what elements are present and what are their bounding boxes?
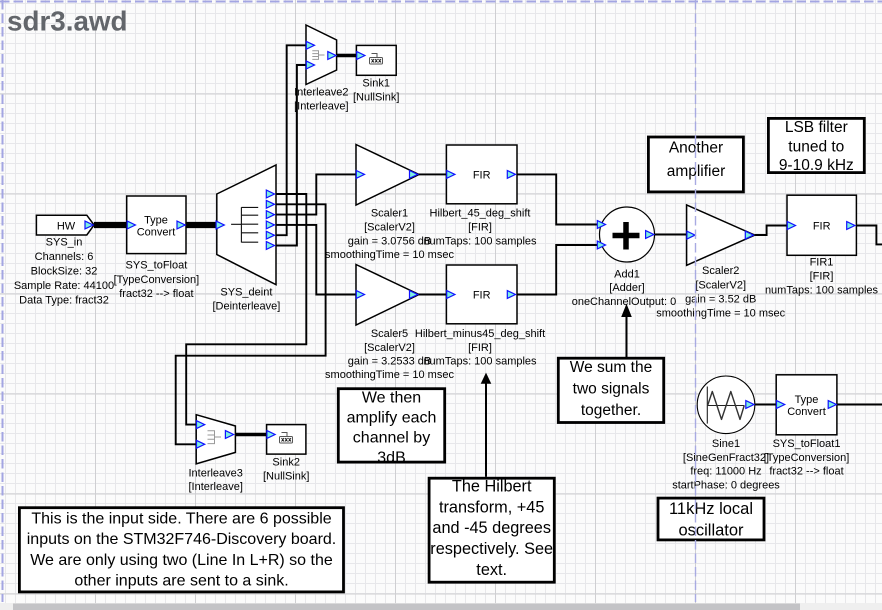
label SYS_deint (212, 286, 280, 312)
svg-text:LSB filter: LSB filter (785, 119, 848, 136)
wire Interleave3 to Sink2 (2ch thick) (235, 433, 266, 437)
wire deint out1 to Interleave3 in1 (186, 194, 306, 425)
svg-text:smoothingTime = 10 msec: smoothingTime = 10 msec (325, 369, 454, 381)
annotation box We sum (558, 358, 663, 422)
annotation box The Hilbert transform (429, 478, 554, 583)
block Scaler1 (amplifier triangle) (356, 145, 419, 206)
svg-text:Type: Type (795, 394, 819, 406)
svg-text:oneChannelOutput: 0: oneChannelOutput: 0 (572, 296, 677, 308)
wire Sine1 to SYS_toFloat1 (755, 404, 776, 406)
svg-text:The Hilbert: The Hilbert (452, 478, 532, 496)
block SYS_toFloat1 (776, 375, 837, 435)
page boundary dashed line vertical x=695.5 (695, 0, 697, 602)
svg-text:channel by: channel by (353, 429, 430, 446)
svg-text:amplify each: amplify each (347, 410, 437, 427)
wire SYS_toFloat to SYS_deint (6ch thick) (186, 222, 217, 228)
wire Scaler5 to Hilbert_minus45_deg_shift (419, 294, 446, 296)
svg-text:smoothingTime = 10 msec: smoothingTime = 10 msec (656, 307, 785, 319)
label Scaler5 (325, 328, 454, 381)
label Hilbert_45_deg_shift (423, 208, 537, 248)
svg-text:[FIR]: [FIR] (468, 222, 492, 234)
label Scaler1 (325, 208, 454, 261)
svg-text:We sum the: We sum the (570, 359, 652, 376)
label FIR1 (765, 256, 879, 296)
block FIR1 (787, 195, 856, 255)
svg-text:HW: HW (57, 221, 76, 233)
svg-text:transform, +45: transform, +45 (439, 498, 544, 516)
scrollbar track (0, 603, 882, 610)
svg-text:SYS_deint: SYS_deint (220, 286, 272, 298)
label Sine1 (672, 438, 780, 491)
svg-text:[TypeConversion]: [TypeConversion] (114, 274, 200, 286)
svg-text:Convert: Convert (137, 226, 176, 238)
wire Add1 to Scaler2 (655, 234, 687, 236)
block HW (SYS_in) (36, 215, 94, 235)
svg-text:sdr3.awd: sdr3.awd (7, 5, 128, 36)
wire deint out2 to Interleave3 in2 (176, 204, 326, 444)
svg-text:Scaler2: Scaler2 (702, 265, 739, 277)
svg-text:Scaler1: Scaler1 (371, 208, 408, 220)
wire HW to SYS_toFloat (6ch thick) (94, 222, 127, 228)
svg-text:together.: together. (581, 402, 641, 419)
block Sine1 (sine generator) (697, 376, 755, 434)
label Sink2 (263, 457, 309, 483)
svg-text:Hilbert_45_deg_shift: Hilbert_45_deg_shift (430, 208, 531, 220)
block SYS_toFloat (127, 196, 186, 254)
svg-text:startPhase: 0 degrees: startPhase: 0 degrees (672, 479, 780, 491)
svg-text:Sink2: Sink2 (272, 457, 300, 469)
label Interleave2 (294, 87, 348, 113)
annotation box This is the input side (19, 508, 343, 592)
label Hilbert_minus45_deg_shift (415, 328, 545, 368)
label Interleave3 (188, 467, 242, 493)
svg-text:Data Type: fract32: Data Type: fract32 (19, 295, 109, 307)
svg-text:Add1: Add1 (614, 269, 640, 281)
svg-text:Sample Rate: 44100: Sample Rate: 44100 (14, 280, 114, 292)
block Hilbert_45_deg_shift (FIR) (446, 145, 517, 204)
svg-text:gain = 3.0756 dB: gain = 3.0756 dB (348, 235, 432, 247)
svg-text:[Deinterleave]: [Deinterleave] (212, 301, 280, 313)
svg-text:Sink1: Sink1 (362, 78, 390, 90)
svg-text:Hilbert_minus45_deg_shift: Hilbert_minus45_deg_shift (415, 328, 545, 340)
label Add1 (572, 269, 677, 308)
svg-text:11kHz local: 11kHz local (669, 500, 753, 518)
label Scaler2 (656, 265, 785, 319)
svg-text:other inputs are sent to a sin: other inputs are sent to a sink. (74, 573, 288, 590)
svg-text:SYS_toFloat1: SYS_toFloat1 (773, 438, 841, 450)
block Interleave3 (196, 415, 235, 464)
svg-text:[ScalerV2]: [ScalerV2] (364, 222, 415, 234)
svg-text:This is the input side. There: This is the input side. There are 6 poss… (31, 511, 331, 528)
block Scaler2 (amplifier triangle) (687, 205, 755, 265)
annotation box 11kHz local oscillator (658, 498, 764, 540)
svg-text:respectively. See: respectively. See (430, 540, 553, 558)
block SYS_deint (Deinterleave) (216, 165, 276, 285)
svg-text:Channels: 6: Channels: 6 (35, 251, 94, 263)
annotation box LSB filter (768, 118, 864, 174)
svg-text:Convert: Convert (787, 406, 826, 418)
wire Scaler2 to FIR1 (755, 226, 787, 236)
svg-text:SYS_toFloat: SYS_toFloat (126, 260, 188, 272)
page boundary dashed line vertical left (2, 0, 4, 602)
annotation box We then amplify (338, 389, 444, 467)
block Sink1 (NullSink) (356, 45, 396, 75)
svg-text:FIR: FIR (813, 221, 831, 233)
svg-text:FIR1: FIR1 (810, 256, 834, 268)
svg-text:[NullSink]: [NullSink] (353, 91, 399, 103)
svg-text:numTaps: 100 samples: numTaps: 100 samples (423, 356, 537, 368)
wire deint out6 to Interleave2 in2 (276, 65, 306, 246)
svg-text:[FIR]: [FIR] (468, 342, 492, 354)
svg-text:tuned to: tuned to (788, 138, 844, 155)
svg-text:9-10.9 kHz: 9-10.9 kHz (779, 157, 854, 174)
wire Interleave2 to Sink1 (2ch thick) (337, 54, 357, 58)
wire Hilbert_45_deg_shift to Add1 in1 (517, 174, 598, 224)
svg-text:[NullSink]: [NullSink] (263, 470, 309, 482)
block Add1 (Adder) (597, 207, 654, 262)
svg-text:fract32 --> float: fract32 --> float (769, 466, 843, 478)
svg-text:inputs on the STM32F746-Discov: inputs on the STM32F746-Discovery board. (27, 531, 336, 548)
svg-text:We are only using two (Line In: We are only using two (Line In L+R) so t… (30, 552, 333, 569)
svg-text:We then: We then (362, 390, 421, 407)
svg-text:BlockSize: 32: BlockSize: 32 (31, 266, 98, 278)
svg-text:[Adder]: [Adder] (609, 282, 644, 294)
svg-text:[Interleave]: [Interleave] (294, 101, 348, 113)
annotation arrow to Hilbert blocks (481, 373, 492, 477)
annotation box Another amplifier (648, 137, 743, 192)
page boundary dashed line horizontal top (0, 1, 882, 3)
label SYS_toFloat (114, 260, 200, 300)
svg-text:gain = 3.2533 dB: gain = 3.2533 dB (348, 356, 432, 368)
wire deint out4 to Scaler5 (276, 225, 356, 295)
svg-text:FIR: FIR (473, 169, 491, 181)
svg-text:Interleave2: Interleave2 (294, 87, 348, 99)
svg-text:SYS_in: SYS_in (46, 237, 83, 249)
svg-text:smoothingTime = 10 msec: smoothingTime = 10 msec (325, 249, 454, 261)
label SYS_toFloat1 (764, 438, 850, 477)
svg-text:text.: text. (476, 561, 507, 579)
svg-text:FIR: FIR (473, 290, 491, 302)
label Sink1 (353, 78, 399, 104)
svg-text:[TypeConversion]: [TypeConversion] (764, 452, 850, 464)
wire SYS_toFloat1 to canvas edge (837, 404, 882, 406)
svg-text:[ScalerV2]: [ScalerV2] (695, 280, 746, 292)
wire Hilbert_minus45_deg_shift to Add1 in2 (517, 245, 598, 295)
svg-text:Scaler5: Scaler5 (371, 328, 408, 340)
svg-text:Sine1: Sine1 (712, 438, 740, 450)
svg-text:[Interleave]: [Interleave] (188, 481, 242, 493)
title sdr3.awd (7, 5, 128, 36)
label SYS_in (14, 237, 114, 307)
svg-text:numTaps: 100 samples: numTaps: 100 samples (765, 284, 879, 296)
svg-text:fract32 --> float: fract32 --> float (119, 288, 193, 300)
block Scaler5 (amplifier triangle) (356, 265, 419, 326)
wire FIR1 to canvas edge (856, 226, 882, 245)
svg-text:Type: Type (144, 214, 168, 226)
svg-text:[ScalerV2]: [ScalerV2] (364, 342, 415, 354)
svg-text:and -45 degrees: and -45 degrees (432, 519, 551, 537)
annotation arrow to Add1 (621, 304, 632, 359)
svg-text:3dB: 3dB (377, 449, 405, 466)
wire deint out5 to Interleave2 in1 (276, 45, 306, 235)
wire deint out3 to Scaler1 (276, 174, 356, 214)
svg-text:freq: 11000 Hz: freq: 11000 Hz (690, 466, 761, 478)
block Interleave2 (306, 25, 337, 85)
block Sink2 (NullSink) (267, 425, 306, 455)
svg-text:numTaps: 100 samples: numTaps: 100 samples (423, 235, 537, 247)
svg-text:oscillator: oscillator (678, 521, 744, 539)
wire Scaler1 to Hilbert_45_deg_shift (419, 173, 446, 175)
svg-text:two signals: two signals (573, 381, 650, 398)
svg-text:Interleave3: Interleave3 (188, 467, 242, 479)
scrollbar thumb (13, 604, 800, 610)
block Hilbert_minus45_deg_shift (FIR) (446, 265, 517, 324)
svg-text:[FIR]: [FIR] (810, 270, 834, 282)
